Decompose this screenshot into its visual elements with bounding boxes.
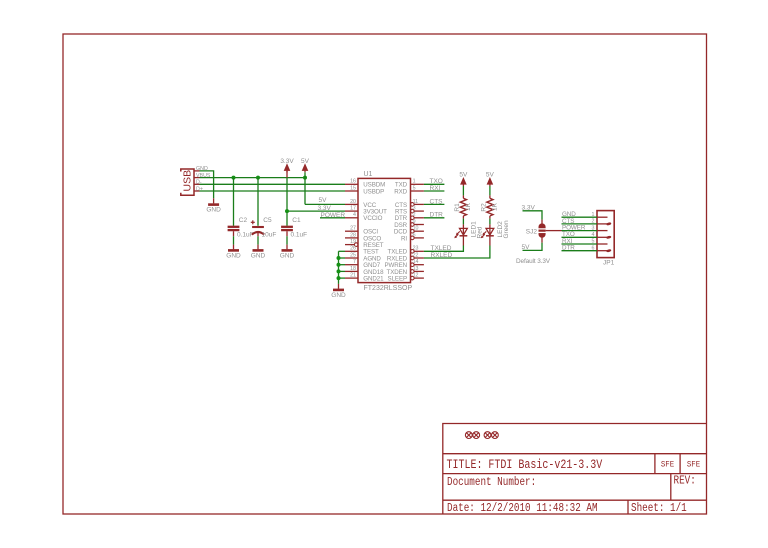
U1 pin 28 OSCO (345, 232, 381, 242)
svg-text:R2: R2 (480, 203, 487, 212)
svg-text:26: 26 (350, 246, 356, 252)
svg-text:4: 4 (592, 232, 595, 238)
junction GND bus 258.0 (337, 256, 341, 260)
USB pin names (196, 166, 211, 192)
wire 5V to R2 (489, 186, 491, 195)
U1 pin 10 DCD (394, 226, 424, 236)
svg-text:5V: 5V (319, 197, 328, 204)
svg-text:GND: GND (331, 292, 346, 299)
U1 pin 13 TXDEN (387, 266, 424, 276)
wire net RXI (424, 185, 445, 192)
U1 pin 17 3V3OUT (345, 206, 387, 216)
svg-text:DTR: DTR (430, 212, 444, 219)
junction VBUS/C5 (256, 176, 260, 180)
svg-text:C1: C1 (292, 217, 301, 224)
svg-text:C2: C2 (239, 217, 248, 224)
wire net TXO (424, 178, 445, 185)
U1 pin 9 DSR (394, 219, 424, 229)
wire net DTR (424, 212, 445, 219)
svg-text:1: 1 (592, 212, 595, 218)
svg-text:19: 19 (350, 239, 356, 245)
svg-text:21: 21 (350, 273, 356, 279)
LED LED2 Green (481, 220, 510, 245)
wire VCC to U1 (305, 203, 345, 205)
wire C5 to VBUS (257, 178, 259, 226)
U1 pin 23 TXLED (388, 246, 424, 256)
svg-text:Default 3.3V: Default 3.3V (516, 258, 551, 265)
supply symbol 5V (301, 158, 310, 173)
svg-text:3: 3 (592, 225, 595, 231)
U1 pin 21 GND21 (345, 273, 384, 283)
svg-text:3.3V: 3.3V (522, 204, 536, 211)
capacitor C1 (280, 211, 307, 259)
JP1 pin 4 TXO (562, 231, 612, 239)
connector JP1 box (597, 211, 614, 258)
capacitor C2 (226, 217, 253, 260)
svg-text:USBDP: USBDP (363, 188, 384, 195)
svg-text:RXLED: RXLED (431, 252, 453, 259)
svg-text:CTS: CTS (430, 198, 444, 205)
wire R2 to LED2 (489, 219, 491, 225)
JP1 pin 1 GND (562, 211, 608, 218)
wire 5V to R1 (462, 186, 464, 195)
svg-text:11: 11 (413, 199, 419, 205)
svg-text:Sheet: 1/1: Sheet: 1/1 (631, 502, 687, 515)
wire 3.3V vertical (286, 171, 288, 178)
U1 pin 16 USBDM (345, 179, 385, 189)
svg-text:4: 4 (353, 212, 356, 218)
title block outline (443, 424, 707, 515)
svg-text:9: 9 (413, 219, 416, 225)
LED LED1 Red (454, 221, 483, 246)
svg-text:7: 7 (353, 259, 356, 265)
wire 5V vertical (304, 172, 306, 204)
svg-text:TITLE: FTDI Basic-v21-3.3V: TITLE: FTDI Basic-v21-3.3V (447, 458, 603, 473)
U1 pin 5 RXD (394, 185, 424, 195)
svg-text:0.1uF: 0.1uF (237, 231, 254, 238)
svg-text:SJ2: SJ2 (526, 229, 538, 236)
svg-text:14: 14 (413, 259, 419, 265)
svg-text:5V: 5V (522, 244, 531, 251)
svg-text:0.1uF: 0.1uF (291, 231, 308, 238)
JP1 pin 3 POWER (562, 225, 608, 232)
ground under U1 (331, 284, 346, 299)
U1 pin 2 DTR (395, 212, 424, 222)
junction 3V3OUT/C1 (285, 209, 289, 213)
wire TXLED (424, 245, 464, 252)
supply symbol 5V above R2 (486, 172, 495, 187)
U1 pin 15 USBDP (345, 185, 384, 195)
svg-text:28: 28 (350, 232, 356, 238)
svg-text:10uF: 10uF (262, 231, 277, 238)
svg-text:13: 13 (413, 266, 419, 272)
wire C2 to VBUS (233, 178, 235, 226)
svg-text:20: 20 (350, 199, 356, 205)
junction GND bus 271.4 (337, 269, 341, 273)
U1 pin 25 AGND (345, 252, 381, 262)
svg-text:1: 1 (413, 179, 416, 185)
svg-text:C5: C5 (263, 217, 272, 224)
svg-text:GND: GND (206, 207, 221, 214)
U1 pin 1 TXD (395, 179, 424, 189)
wire TEST/AGND/GND bus (339, 251, 346, 284)
junction VBUS/5V (303, 176, 307, 180)
svg-text:5V: 5V (459, 172, 468, 179)
wire D- (200, 183, 346, 185)
wire GND from USB (200, 171, 214, 198)
svg-text:GND: GND (226, 252, 241, 259)
svg-text:DTR: DTR (562, 245, 575, 252)
wire VBUS rail (200, 177, 306, 179)
svg-text:5: 5 (592, 239, 595, 245)
JP1 pin 5 RXI (562, 238, 608, 245)
svg-text:R1: R1 (454, 203, 461, 212)
svg-text:RXD: RXD (394, 188, 407, 195)
svg-text:15: 15 (350, 185, 356, 191)
junction GND bus 278.1 (337, 276, 341, 280)
USB connector symbol (181, 169, 194, 195)
svg-text:6: 6 (592, 245, 595, 251)
svg-text:FT232RLSSOP: FT232RLSSOP (364, 285, 413, 292)
U1 pin 26 TEST (345, 246, 379, 256)
svg-text:5V: 5V (486, 172, 495, 179)
U1 pin 18 GND18 (345, 266, 384, 276)
svg-text:3.3V: 3.3V (280, 158, 294, 165)
svg-text:SFE: SFE (661, 460, 675, 470)
wire 5V to SJ2 (522, 243, 543, 251)
svg-text:SLEEP: SLEEP (388, 276, 407, 283)
resistor R1 1K (454, 195, 472, 218)
logo marks (465, 432, 498, 439)
U1 pin 11 CTS (395, 199, 424, 209)
U1 pin 19 RESET (345, 239, 384, 249)
svg-text:25: 25 (350, 252, 356, 258)
U1 pin 12 SLEEP (388, 273, 424, 283)
svg-text:1K: 1K (492, 202, 499, 211)
svg-text:10: 10 (413, 226, 419, 232)
svg-text:VCCIO: VCCIO (363, 215, 382, 222)
svg-text:27: 27 (350, 226, 356, 232)
svg-text:SFE: SFE (687, 460, 701, 470)
JP1 pin 6 DTR (562, 245, 612, 253)
wire R1 to LED1 (462, 219, 464, 225)
svg-text:Document Number:: Document Number: (447, 476, 536, 489)
svg-text:USB: USB (182, 170, 194, 192)
junction GND bus 264.7 (337, 263, 341, 267)
wire D+ (200, 190, 346, 192)
wire RXLED (424, 246, 490, 259)
svg-text:22: 22 (413, 252, 419, 258)
U1 pin 3 RTS (395, 206, 424, 216)
svg-text:5V: 5V (301, 158, 310, 165)
border frame (63, 34, 707, 514)
ground under USB (206, 198, 221, 213)
svg-text:2: 2 (413, 212, 416, 218)
U1 pin 20 VCC (345, 199, 377, 209)
JP1 pin 2 CTS (562, 218, 612, 226)
svg-text:18: 18 (350, 266, 356, 272)
wire SJ2 to POWER (546, 230, 562, 232)
U1 pin 22 RXLED (387, 252, 424, 262)
svg-text:6: 6 (413, 232, 416, 238)
U1 pin 4 VCCIO (345, 212, 383, 222)
supply symbol 5V above R1 (459, 172, 468, 187)
svg-text:U1: U1 (364, 171, 373, 178)
wire 3.3V to SJ2 (522, 204, 543, 219)
svg-text:17: 17 (350, 206, 356, 212)
svg-text:1K: 1K (465, 202, 472, 211)
svg-text:23: 23 (413, 246, 419, 252)
supply symbol 3.3V (280, 158, 294, 173)
U1 pin 14 PWREN (384, 259, 423, 269)
svg-text:Green: Green (503, 220, 510, 238)
capacitor C5 (251, 217, 277, 260)
svg-text:GND: GND (251, 252, 266, 259)
wire POWER to U1 (320, 217, 345, 219)
U1 pin 7 GND7 (345, 259, 381, 269)
svg-text:12: 12 (413, 273, 419, 279)
svg-text:RXI: RXI (430, 185, 441, 192)
svg-text:POWER: POWER (321, 212, 346, 219)
svg-text:GND: GND (280, 252, 295, 259)
svg-text:3: 3 (413, 206, 416, 212)
svg-text:Date: 12/2/2010 11:48:32 AM: Date: 12/2/2010 11:48:32 AM (447, 502, 598, 515)
U1 pin 6 RI (401, 232, 424, 242)
title text (447, 458, 701, 516)
svg-text:2: 2 (592, 219, 595, 225)
op IC U1 box (358, 178, 411, 282)
svg-text:5: 5 (413, 185, 416, 191)
U1 pin 27 OSCI (345, 226, 378, 236)
wire net CTS (424, 198, 445, 205)
USB pin stubs (194, 171, 200, 191)
svg-text:JP1: JP1 (603, 259, 615, 266)
svg-text:GND21: GND21 (363, 276, 384, 283)
svg-text:REV:: REV: (674, 475, 696, 488)
svg-text:16: 16 (350, 179, 356, 185)
junction VBUS/C2 (232, 176, 236, 180)
svg-text:RI: RI (401, 235, 407, 242)
solder jumper SJ2 (526, 220, 546, 243)
resistor R2 1K (480, 195, 498, 218)
wire 3V3OUT to U1 (287, 210, 345, 212)
